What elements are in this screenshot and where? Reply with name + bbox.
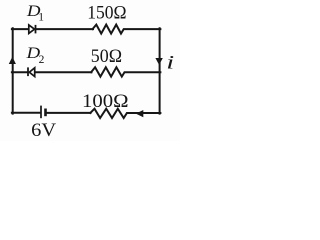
svg-text:i: i bbox=[166, 53, 174, 73]
svg-text:6V: 6V bbox=[31, 120, 56, 141]
svg-text:150Ω: 150Ω bbox=[87, 3, 126, 24]
svg-text:1: 1 bbox=[38, 12, 44, 24]
svg-text:2: 2 bbox=[39, 54, 45, 66]
svg-text:50Ω: 50Ω bbox=[91, 46, 122, 67]
svg-text:100Ω: 100Ω bbox=[82, 91, 129, 112]
